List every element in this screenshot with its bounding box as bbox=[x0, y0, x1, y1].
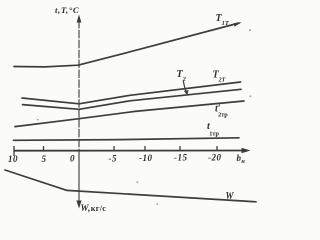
svg-text:W: W bbox=[226, 191, 235, 202]
svg-text:bн: bн bbox=[237, 153, 246, 165]
svg-text:t′2тр: t′2тр bbox=[215, 104, 228, 119]
svg-text:-15: -15 bbox=[174, 153, 188, 163]
svg-text:W,кг/с: W,кг/с bbox=[81, 203, 107, 213]
svg-text:T2: T2 bbox=[177, 69, 187, 83]
svg-text:T2T: T2T bbox=[213, 70, 226, 84]
svg-text:t,T,°C: t,T,°C bbox=[55, 5, 79, 15]
svg-text:-20: -20 bbox=[208, 153, 222, 163]
svg-text:-5: -5 bbox=[109, 154, 118, 164]
svg-text:T1T: T1T bbox=[216, 13, 230, 27]
svg-text:10: 10 bbox=[8, 154, 18, 164]
svg-text:0: 0 bbox=[70, 154, 75, 164]
svg-text:t1тр: t1тр bbox=[207, 121, 219, 138]
svg-text:-10: -10 bbox=[139, 153, 153, 163]
svg-text:5: 5 bbox=[42, 154, 47, 164]
